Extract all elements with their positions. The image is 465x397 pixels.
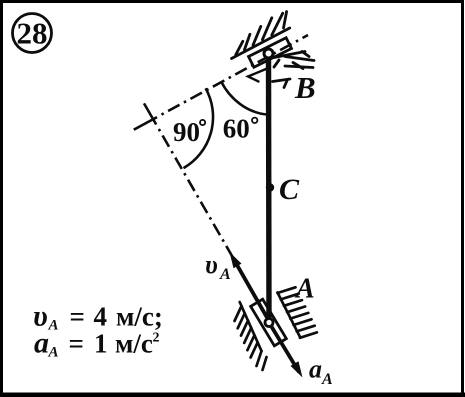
svg-text:υ: υ	[205, 250, 218, 279]
svg-text:м/с: м/с	[115, 329, 153, 359]
svg-text:A: A	[294, 274, 315, 305]
svg-text:м/с;: м/с;	[116, 302, 163, 332]
svg-text:A: A	[321, 371, 333, 388]
svg-text:28: 28	[17, 16, 48, 51]
svg-text:90: 90	[173, 117, 200, 147]
svg-text:A: A	[48, 345, 59, 361]
svg-text:4: 4	[94, 302, 108, 332]
svg-text:60: 60	[223, 113, 250, 143]
svg-text:C: C	[279, 173, 300, 206]
svg-text:2: 2	[153, 331, 160, 346]
svg-text:=: =	[69, 329, 84, 359]
svg-text:A: A	[48, 318, 59, 334]
svg-text:a: a	[309, 355, 322, 384]
svg-text:a: a	[34, 327, 49, 360]
svg-text:=: =	[70, 302, 85, 332]
svg-text:1: 1	[94, 329, 108, 359]
svg-text:A: A	[219, 266, 231, 283]
svg-text:B: B	[294, 70, 316, 105]
